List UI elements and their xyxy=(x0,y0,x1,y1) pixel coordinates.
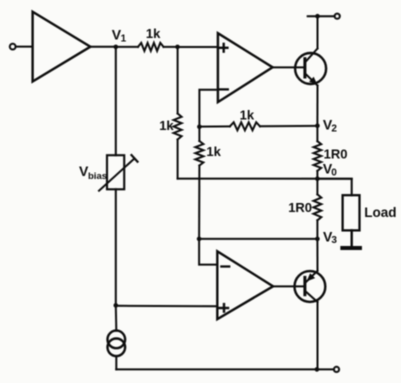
svg-text:1: 1 xyxy=(121,33,127,44)
resistor R2 1k xyxy=(159,114,181,140)
bottom rail xyxy=(116,368,334,370)
bottom supply terminal xyxy=(334,367,339,372)
wire U1 output to Q1 base xyxy=(273,66,304,68)
input terminal xyxy=(10,44,16,50)
wire Q2 collector down to bottom rail xyxy=(317,302,319,369)
resistor R3 1k feedback xyxy=(230,108,260,131)
wire node A up to U1 - input xyxy=(199,90,218,127)
wire Q1 collector to top rail xyxy=(317,16,319,48)
wire V0 to R6 xyxy=(316,179,318,195)
wire V1 to R1 xyxy=(116,46,138,48)
svg-text:1R0: 1R0 xyxy=(324,146,348,161)
wire V1 down to Vbias xyxy=(115,47,117,155)
bottom rail junction dot xyxy=(315,367,320,372)
wire node C to V3 xyxy=(199,238,317,240)
top supply rail xyxy=(308,15,335,17)
node V0 xyxy=(315,160,337,181)
transistor Q1 xyxy=(295,49,326,86)
wire node C down to U2 - input xyxy=(199,239,217,265)
svg-text:0: 0 xyxy=(331,168,337,179)
wire node A to R3 xyxy=(199,125,230,127)
top supply terminal xyxy=(335,14,340,19)
wire R3 to V2 xyxy=(260,125,317,127)
svg-text:Load: Load xyxy=(364,205,396,220)
wire node B to U1 + input xyxy=(178,46,218,48)
wire input to buffer xyxy=(16,46,33,48)
wire R4 down to node C (crosses V0 line) xyxy=(198,166,200,239)
wire Vbias down to node D xyxy=(115,189,117,305)
svg-text:1k: 1k xyxy=(240,108,255,123)
wire node D down to current source xyxy=(115,305,118,330)
wire R2 down to V0 line xyxy=(177,140,179,179)
wire R5 to V0 xyxy=(316,171,318,179)
wire node B down to R2 xyxy=(177,47,179,114)
wire V0 to load branch xyxy=(317,179,351,196)
node D junction xyxy=(114,303,119,308)
current source I1 xyxy=(108,331,126,357)
buffer A1 xyxy=(33,12,91,82)
svg-text:3: 3 xyxy=(331,235,337,246)
wire V0 horizontal line xyxy=(178,178,352,180)
node V3 xyxy=(315,229,337,247)
op-amp U2 xyxy=(217,251,273,319)
wire load to ground xyxy=(351,230,353,246)
transistor Q2 xyxy=(295,271,326,302)
wire node D to U2 + input xyxy=(116,305,218,307)
top rail junction dot xyxy=(315,14,320,19)
svg-text:1k: 1k xyxy=(206,144,221,159)
wire V3 down to Q2 emitter xyxy=(316,239,318,271)
svg-text:1k: 1k xyxy=(146,26,161,41)
resistor R4 1k xyxy=(195,141,221,166)
node V1 xyxy=(112,26,127,49)
wire current source to bottom rail xyxy=(115,356,117,369)
resistor R6 1R0 xyxy=(288,194,321,220)
svg-text:1k: 1k xyxy=(159,118,174,133)
node V2 xyxy=(315,117,337,135)
wire U2 output to Q2 base xyxy=(273,285,303,287)
wire Q1 emitter down to V2 xyxy=(316,86,318,126)
node B junction xyxy=(175,45,180,50)
load box xyxy=(343,195,397,230)
svg-text:bias: bias xyxy=(88,171,107,182)
resistor R1 1k xyxy=(138,26,164,51)
node C junction xyxy=(197,237,202,242)
wire node A down to R4 xyxy=(198,127,200,141)
wire A1 output to node V1 xyxy=(90,46,115,48)
svg-text:2: 2 xyxy=(331,123,337,134)
wire R6 to V3 xyxy=(316,220,318,239)
wire R1 to node B xyxy=(164,46,178,48)
node A junction xyxy=(197,125,202,130)
resistor R5 1R0 xyxy=(314,141,348,171)
svg-text:1R0: 1R0 xyxy=(288,200,312,215)
wire V2 to R5 xyxy=(316,126,318,141)
Vbias variable source xyxy=(79,155,138,191)
ground xyxy=(342,246,360,250)
op-amp U1 xyxy=(218,33,273,102)
